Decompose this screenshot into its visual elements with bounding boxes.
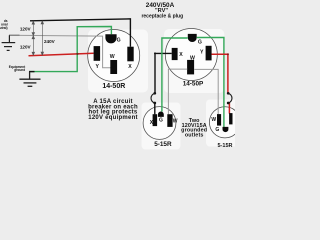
ground symbol (neutral) — [2, 35, 16, 50]
svg-text:G: G — [117, 38, 121, 44]
14-50R pin G — [105, 34, 116, 43]
svg-text:G: G — [159, 118, 163, 124]
breaker left — [153, 92, 156, 95]
wire green plug right side — [197, 38, 224, 128]
faceplate 14-50R — [88, 30, 148, 93]
svg-text:W: W — [110, 54, 115, 60]
junction dot red-green — [76, 53, 78, 55]
outlet 5-15R right circle — [209, 107, 240, 138]
wire gray plug left side — [168, 69, 187, 114]
wire black plug to left outlet — [155, 53, 172, 93]
14-50P pin X — [172, 48, 178, 60]
5-15R left pin G — [158, 112, 164, 117]
svg-text:W: W — [173, 118, 178, 124]
ground symbol (equipment ground) — [19, 72, 40, 87]
svg-text:G: G — [215, 127, 219, 133]
5-15R right pin neutral — [217, 114, 221, 126]
wire black stub at equipment ground — [29, 71, 35, 73]
wire gray plug right side — [194, 69, 218, 114]
wire red hot left — [29, 53, 94, 56]
5-15R left pin hot — [153, 114, 158, 126]
svg-text:X: X — [179, 52, 183, 58]
5-15R left pin neutral — [167, 114, 172, 127]
svg-text:ground: ground — [14, 68, 25, 72]
wire neutral left — [9, 35, 111, 68]
junction dot black corner — [154, 52, 156, 54]
svg-text:utral): utral) — [0, 26, 8, 30]
svg-text:Y: Y — [95, 64, 99, 70]
faceplate 5-15R left — [142, 103, 181, 150]
faceplate 5-15R right — [206, 100, 243, 147]
wire neutral black stub at ground — [9, 34, 20, 36]
svg-text:W: W — [211, 117, 216, 123]
svg-text:14-50R: 14-50R — [102, 83, 125, 90]
14-50R pin Y — [94, 46, 101, 61]
5-15R right pin hot — [229, 113, 232, 124]
svg-text:outlets: outlets — [185, 132, 204, 138]
14-50R pin X — [127, 47, 133, 62]
svg-text:5-15R: 5-15R — [218, 143, 233, 149]
svg-text:5-15R: 5-15R — [154, 141, 172, 148]
svg-text:X: X — [128, 64, 132, 70]
svg-text:14-50P: 14-50P — [183, 81, 204, 88]
svg-text:120V equipment: 120V equipment — [88, 115, 138, 121]
junction dot red corner — [227, 53, 229, 55]
wire green plug left side — [162, 38, 188, 112]
svg-text:240V: 240V — [44, 39, 56, 44]
outlet 5-15R left circle — [143, 107, 176, 140]
svg-text:Y: Y — [200, 50, 204, 56]
14-50R pin W — [110, 60, 117, 74]
dimension line 120V/120V — [32, 21, 35, 55]
dimension line 240V — [41, 21, 44, 55]
receptacle 14-50R circle — [88, 30, 140, 82]
faceplate 14-50P — [164, 29, 224, 93]
14-50P pin W — [187, 60, 194, 75]
wire green equipment ground left — [29, 27, 111, 72]
wire red plug to right outlet — [212, 54, 228, 93]
breaker right — [227, 92, 230, 95]
5-15R right pin G — [223, 127, 229, 132]
svg-text:120V: 120V — [20, 44, 32, 49]
svg-text:120V: 120V — [20, 27, 32, 32]
plug 14-50P circle — [165, 29, 217, 81]
svg-text:receptacle & plug: receptacle & plug — [141, 14, 183, 20]
svg-text:G: G — [198, 40, 202, 46]
14-50P pin G — [188, 34, 197, 42]
wire black hot bus left — [30, 19, 130, 47]
14-50P pin Y — [206, 46, 212, 61]
svg-text:W: W — [190, 55, 195, 61]
